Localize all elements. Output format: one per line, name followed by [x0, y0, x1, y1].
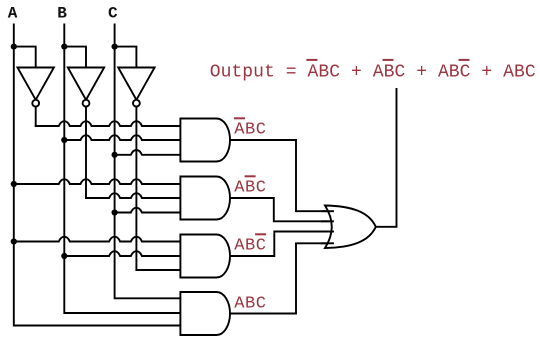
svg-text:C: C	[108, 5, 118, 23]
svg-text:ABC: ABC	[234, 121, 266, 140]
svg-text:ABC: ABC	[234, 237, 266, 256]
svg-text:ABC: ABC	[234, 295, 266, 314]
svg-text:Output = ABC + ABC + ABC + ABC: Output = ABC + ABC + ABC + ABC	[210, 63, 536, 83]
svg-text:ABC: ABC	[234, 179, 266, 198]
svg-text:A: A	[8, 5, 18, 23]
svg-text:B: B	[57, 5, 67, 23]
